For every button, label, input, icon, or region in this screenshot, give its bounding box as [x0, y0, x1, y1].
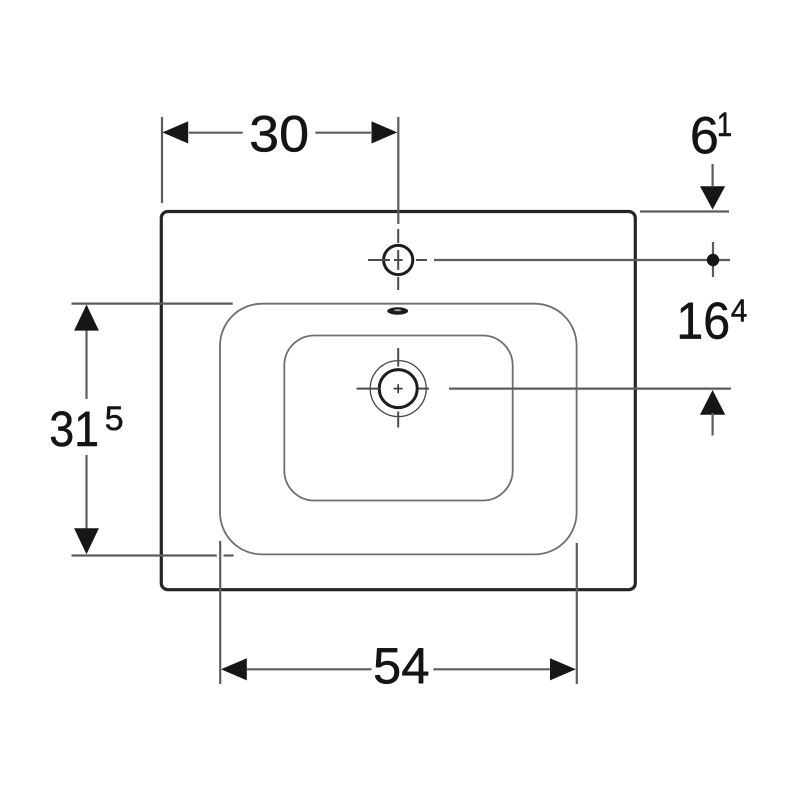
dimension 30: dimension line: [189, 132, 243, 134]
dimension 54: left extension line: [219, 541, 221, 684]
dimension 31-5: dimension line: [85, 306, 87, 399]
dimension 54: label: [375, 648, 428, 684]
drain thick circle: [379, 370, 417, 408]
dimension 6-1: label: [693, 117, 717, 154]
dimension 16-4: arrow tail: [711, 413, 713, 436]
dimension 6-1: arrow tail: [711, 164, 713, 186]
dimension 30: label: [251, 116, 307, 152]
dimension 6-1: down arrow: [700, 186, 725, 209]
overflow slot: [387, 307, 408, 314]
dimension 30: right extension line: [397, 117, 399, 224]
faucet hole circle: [384, 245, 413, 274]
dimension 31-5: bottom extension line: [72, 554, 217, 556]
drain crosshair: [357, 348, 430, 428]
dimension 30: left arrow: [162, 121, 188, 143]
dimension 16-4: label: [680, 302, 728, 339]
dimension origin dot (6-1 / 16-4): [712, 242, 714, 277]
dimension 54: right extension line: [576, 543, 578, 684]
basin bowl outer rounded rectangle: [220, 304, 577, 555]
dimension 54: dimension line: [247, 668, 372, 670]
dimension 31-5: label: [51, 411, 97, 446]
drain outer thin circle: [370, 361, 426, 417]
dimension 54: right arrow: [550, 658, 576, 680]
dimension 30: left extension line: [161, 117, 163, 203]
basin outer rectangle (washbasin top view outline): [161, 212, 635, 590]
dimension 31-5: bottom arrow: [74, 528, 99, 554]
dimension 6-1: edge line: [640, 210, 729, 212]
faucet level line to right: [434, 259, 730, 261]
faucet hole crosshair: [368, 229, 427, 290]
dimension 30: right arrow: [372, 121, 398, 143]
dimension 31-5: top extension line: [72, 303, 233, 305]
dimension 54: left arrow: [221, 658, 247, 680]
drain center cross: [394, 384, 403, 393]
drain level line to right: [449, 388, 731, 390]
basin bowl inner rounded rectangle: [284, 336, 512, 501]
dimension 16-4: up arrow: [700, 390, 725, 415]
dimension 31-5: top arrow: [74, 305, 99, 331]
